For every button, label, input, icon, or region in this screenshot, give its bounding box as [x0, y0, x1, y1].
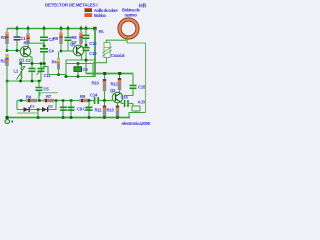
tank top wire [21, 63, 47, 65]
resistor R13 [116, 106, 119, 118]
node x63 y117.5 [62, 116, 65, 119]
legend swatch anillo [85, 8, 93, 12]
wire R1 top lead [6, 29, 8, 33]
node x104 y117.5 [103, 116, 106, 119]
svg-text:AJ3: AJ3 [138, 100, 146, 105]
node x88 y59.5 [85, 59, 88, 62]
svg-text:Coaxial: Coaxial [111, 53, 125, 58]
svg-text:rastreo: rastreo [125, 13, 138, 18]
node x71 [70, 99, 73, 102]
node bus x28 [27, 27, 30, 30]
wire stub y113 [17, 112, 38, 114]
node x56 [55, 99, 58, 102]
wire R3 bottom lead [27, 43, 29, 47]
svg-text:9V.: 9V. [99, 29, 104, 34]
node x71 y117.5 [70, 116, 73, 119]
resistor R10 [103, 75, 106, 101]
svg-text:HR: HR [139, 4, 147, 10]
svg-text:Q2: Q2 [70, 42, 76, 47]
capacitor C3 [40, 29, 48, 46]
svg-text:R1: R1 [1, 35, 7, 40]
search coil L2 (ring) [118, 18, 139, 39]
svg-text:C5: C5 [44, 87, 50, 92]
transistor Q3 [112, 92, 122, 102]
node top bus end [93, 27, 96, 30]
svg-text:R2: R2 [1, 59, 7, 64]
wire Q3 emitter to R13 [117, 103, 119, 106]
wire y77.5 [64, 76, 95, 78]
node x66 y77.5 [65, 75, 68, 78]
wire box top y92.5 [40, 93, 58, 96]
svg-text:Q3: Q3 [110, 88, 116, 93]
node x58 y73.5 [57, 73, 60, 76]
node x32 y81 [31, 80, 34, 83]
svg-text:C11: C11 [44, 73, 52, 78]
capacitor C10 [83, 47, 90, 74]
node x104 y100.5 [103, 99, 106, 102]
svg-text:R7: R7 [46, 94, 52, 99]
bottom ground bus [7, 117, 130, 119]
node bus x81 [80, 27, 83, 30]
coax connector [102, 43, 111, 58]
node x78 y77.5 [77, 75, 80, 78]
svg-text:D2: D2 [48, 105, 53, 109]
svg-text:R12: R12 [111, 82, 119, 87]
node tank x44 [43, 62, 46, 65]
svg-text:R10: R10 [92, 81, 100, 86]
signal bus y100.5 [17, 100, 94, 102]
svg-text:C10: C10 [89, 51, 97, 56]
svg-text:C15: C15 [138, 85, 146, 90]
capacitor C12 on x89 [86, 101, 93, 118]
capacitor C1 [14, 29, 21, 51]
node x63 [62, 99, 65, 102]
wire left column to bottom bus [6, 81, 8, 118]
node tank x20 [19, 62, 22, 65]
wire coax bottom to node [93, 58, 107, 63]
svg-text:D1: D1 [30, 105, 35, 109]
wire Q3 emitter to C16 [120, 102, 124, 104]
node x89 [88, 99, 91, 102]
resistor R11 [103, 101, 106, 117]
diode wire y109.5 [17, 101, 56, 110]
node x21 [20, 99, 23, 102]
bus stubs above dots [17, 26, 86, 29]
svg-text:R13: R13 [107, 108, 115, 113]
9V supply rail [94, 29, 96, 74]
node x61 y51 [60, 50, 63, 53]
resistor R5 [59, 29, 62, 52]
svg-text:Q1: Q1 [19, 58, 25, 63]
node x78 y63.5 [77, 62, 80, 65]
wire Q2 emitter [81, 55, 83, 60]
capacitor C2 [29, 65, 36, 82]
resistor R9 horizontal [79, 99, 90, 102]
resistor R3 [26, 33, 29, 43]
node x95 y73.5 connect rail down [94, 74, 96, 77]
wire coil bottom lead [126, 37, 128, 44]
resistor R1 [5, 32, 8, 44]
svg-text:C8: C8 [83, 67, 89, 72]
wire x66 vertical [65, 60, 67, 77]
node bus x68 [67, 27, 70, 30]
wire coil right lead to right rail [127, 43, 146, 113]
node x7 y81 [6, 80, 9, 83]
wire Q1 collector [29, 42, 45, 44]
svg-text:R4: R4 [26, 94, 32, 99]
resistor R4 vertical [57, 52, 60, 75]
svg-text:C13: C13 [89, 41, 97, 46]
resistor R2 [5, 54, 8, 81]
wire R3 top lead [27, 29, 29, 34]
node x117 y117.5 [116, 116, 119, 119]
node x38 y109.5 [37, 108, 40, 111]
wire Q1 emitter [29, 56, 32, 64]
top supply bus [7, 28, 95, 30]
wire x38 to bottom bus [37, 110, 39, 118]
wire emitter bus y60 [66, 59, 95, 61]
tank bottom wire [7, 80, 41, 82]
capacitor C16 series [124, 100, 133, 107]
node x120 y73.5 [118, 72, 121, 75]
svg-text:DETECTOR DE METALES I: DETECTOR DE METALES I [45, 3, 97, 8]
wire AJ3 to bus [129, 113, 146, 118]
wire Q2 base [61, 50, 76, 52]
node bus x17 [16, 27, 18, 30]
wire mid y63.5 [66, 64, 93, 77]
wire jog to y73 [43, 67, 49, 75]
node x17 y50.5 [16, 49, 18, 52]
svg-text:C14: C14 [90, 93, 98, 98]
node x88 y45.2 [85, 44, 88, 47]
node tank x41 [40, 62, 43, 65]
resistor R7 horizontal [43, 99, 54, 102]
capacitor C14 series [94, 97, 99, 104]
node bus x88 [85, 27, 88, 30]
capacitor C9 on x71 [68, 101, 75, 118]
thick wire y73.5 [86, 73, 133, 75]
capacitor C15 [124, 74, 137, 96]
inductor L1 [17, 64, 26, 82]
node x7 y50.5 [6, 49, 9, 52]
trimmer AJ3 [132, 104, 140, 113]
wire R1 bottom lead [6, 44, 8, 51]
trimmer capacitor C11 [37, 65, 46, 82]
transistor Q1 [20, 46, 30, 56]
battery terminal [5, 120, 10, 124]
wire base line Q1 [7, 50, 24, 52]
node x44 y45.8 [43, 45, 46, 48]
svg-text:R4: R4 [52, 60, 58, 65]
capacitor C6 on x63 [62, 101, 64, 118]
capacitor C13 [83, 29, 90, 46]
node x7 y117.5 [6, 116, 9, 119]
node tank x32 [31, 62, 34, 65]
node x38 y117.5 [37, 116, 40, 119]
wire coil to coax [107, 40, 127, 42]
svg-text:R9: R9 [80, 94, 86, 99]
svg-text:C4: C4 [49, 49, 55, 54]
node x89 y117.5 [88, 116, 91, 119]
capacitor C4 [40, 46, 48, 64]
svg-text:C2: C2 [26, 58, 32, 63]
terminal mark [12, 121, 14, 123]
diode D1 [24, 107, 30, 112]
resistor R12 [118, 75, 121, 93]
svg-text:electronica2000: electronica2000 [122, 121, 151, 126]
node bus x44 [43, 27, 46, 30]
capacitor C7 [65, 29, 72, 52]
resistor R6 [79, 29, 82, 46]
legend swatch bobina [85, 13, 93, 17]
svg-text:Bobina: Bobina [94, 13, 106, 18]
transistor Q2 [73, 45, 83, 55]
node bus x61 [60, 27, 63, 30]
node x39 y81 [38, 80, 41, 83]
resistor R4 horizontal [26, 99, 37, 102]
wire y73.5 left [48, 74, 66, 76]
node x105 y73.5 [103, 72, 106, 75]
node x40 [38, 99, 41, 102]
diode D2 [42, 107, 48, 112]
svg-text:R5: R5 [53, 36, 59, 41]
capacitor C5 [36, 81, 43, 101]
node x20 y81 [19, 80, 22, 83]
crystal CR [74, 65, 82, 77]
svg-text:R11: R11 [95, 108, 103, 113]
